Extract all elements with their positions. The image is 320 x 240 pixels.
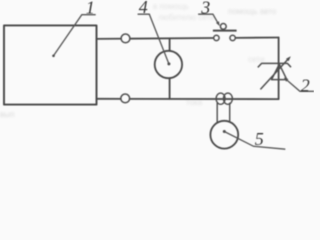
- svg-text:в помощь: в помощь: [153, 2, 189, 11]
- svg-text:4: 4: [139, 0, 148, 17]
- svg-text:3: 3: [200, 0, 210, 17]
- svg-text:5: 5: [255, 129, 264, 149]
- svg-text:2: 2: [301, 75, 310, 95]
- svg-text:помощь авто: помощь авто: [228, 7, 277, 16]
- svg-text:вып: вып: [0, 110, 14, 119]
- svg-text:1: 1: [86, 0, 95, 17]
